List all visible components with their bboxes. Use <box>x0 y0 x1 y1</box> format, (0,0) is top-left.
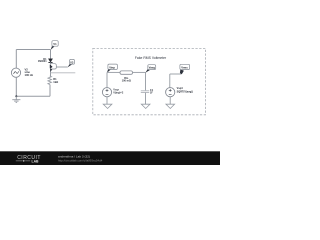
wire vinp vertical <box>106 72 108 87</box>
svg-text:V(inp)^2: V(inp)^2 <box>113 92 124 95</box>
wire node to flag stub <box>56 66 67 68</box>
svg-text:Vavg: Vavg <box>149 66 156 70</box>
svg-text:http://circuitlab.com/c/la893x: http://circuitlab.com/c/la893xy54d4 <box>58 158 103 162</box>
net flag Vavg <box>145 65 155 73</box>
wire node vertical <box>50 63 52 77</box>
capacitor C1 <box>141 89 154 95</box>
wire stub right (light) <box>51 72 76 74</box>
node junction dot ground net <box>15 95 17 97</box>
wire vrms horizontal <box>170 73 181 75</box>
ground (cap branch, triangle) <box>141 104 150 108</box>
wire vinp corner to resistor <box>107 71 120 73</box>
svg-text:Fake RMS Voltmeter: Fake RMS Voltmeter <box>135 56 167 60</box>
subcircuit dashed box "Fake RMS Voltmeter" <box>93 48 206 114</box>
diode D1 <box>38 58 53 63</box>
ammeter box at node <box>50 64 56 72</box>
dependent source Vsqrt <box>166 87 193 97</box>
svg-text:V3: V3 <box>70 61 74 65</box>
wire left vertical lower <box>15 77 17 96</box>
wire cap top vertical <box>145 72 147 90</box>
wire cap bottom vertical <box>145 93 147 105</box>
wire diode vertical <box>50 50 52 59</box>
ground (vsqrt branch, triangle) <box>166 104 175 108</box>
svg-text:1kΩ: 1kΩ <box>53 80 58 84</box>
wire bottom horizontal <box>16 95 50 97</box>
wire resistor to cap node <box>133 71 146 73</box>
wire resistor bottom vertical <box>49 85 51 97</box>
CircuitLab watermark bar <box>0 151 220 165</box>
voltage source V2 <box>11 67 33 77</box>
svg-text:1F: 1F <box>150 92 153 95</box>
wire top horizontal <box>16 49 50 51</box>
svg-text:LAB: LAB <box>32 160 40 164</box>
svg-text:Vinp: Vinp <box>109 65 115 69</box>
ground (vsqr branch, triangle) <box>103 104 112 108</box>
ground (left, 3-bar) <box>12 96 20 102</box>
svg-text:100 Hz: 100 Hz <box>25 73 34 77</box>
net flag Vrms <box>180 64 190 74</box>
svg-text:100 mΩ: 100 mΩ <box>122 80 131 83</box>
wire vrms vertical <box>169 74 171 88</box>
wire vsqr bottom <box>106 97 108 104</box>
net flag V1 <box>51 41 59 50</box>
resistor Rlo <box>120 71 133 83</box>
svg-text:SQRT(V(avg)): SQRT(V(avg)) <box>177 90 193 93</box>
svg-text:V1: V1 <box>53 42 57 46</box>
svg-text:Vrms: Vrms <box>181 66 188 70</box>
dependent source Vsqr <box>102 88 123 97</box>
net flag Vinp <box>107 64 117 73</box>
wire vsqrt bottom <box>169 97 171 104</box>
resistor R1 <box>48 76 58 85</box>
wire left vertical upper <box>15 50 17 69</box>
net flag V3 <box>68 59 75 67</box>
svg-text:1N4001: 1N4001 <box>38 60 47 63</box>
